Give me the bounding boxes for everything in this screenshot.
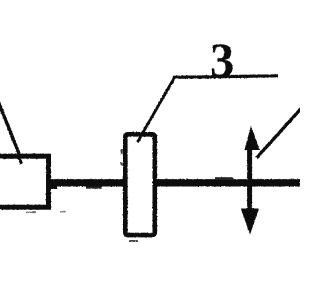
double-headed arrow: shaft xyxy=(247,145,252,213)
leader line to left component (cut off at image edge) xyxy=(0,101,22,161)
scan speckles xyxy=(26,149,233,242)
component box 1 (left, cut off) xyxy=(0,156,49,207)
leader diagonal from label 3 to middle rect xyxy=(138,78,175,143)
double-headed arrow: top head xyxy=(244,126,259,150)
svg-text:3: 3 xyxy=(210,35,234,88)
leader tip poking into box 1 xyxy=(19,157,22,164)
wire: main horizontal shaft xyxy=(44,179,300,186)
double-headed arrow: bottom head xyxy=(241,209,259,235)
leader line horizontal under label 3 xyxy=(173,76,278,78)
leader diagonal to arrow (cut off at right edge) xyxy=(257,108,303,159)
component rect 2 (middle tall block) xyxy=(125,134,155,235)
